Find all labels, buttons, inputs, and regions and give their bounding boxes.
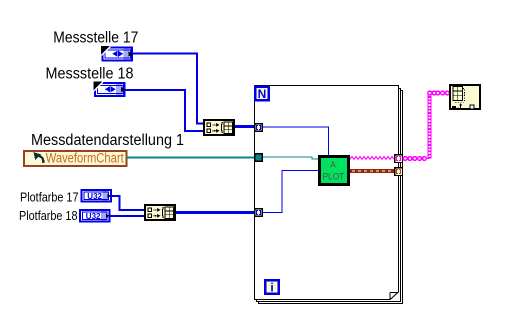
U32 constant terminal Plotfarbe 17	[81, 189, 113, 203]
control terminal Messstelle 17	[101, 46, 133, 62]
iteration terminal i	[265, 280, 279, 294]
Build Array node 1	[204, 120, 234, 135]
svg-text:WaveformChart: WaveformChart	[46, 151, 124, 166]
svg-text:U32: U32	[87, 192, 102, 201]
wire bottom tunnel to A PLOT left (inside loop)	[263, 171, 319, 213]
for loop dog-ear corner	[389, 292, 398, 300]
wire Plotfarbe 18 to Build Array 2 input 2	[111, 215, 145, 217]
svg-text:A: A	[330, 160, 336, 170]
for loop frame 2 (stacked page)	[257, 89, 401, 302]
wire cluster array to indicator (magenta bead chain)	[403, 91, 449, 160]
loop count terminal N	[255, 87, 269, 101]
loop tunnel array in (bottom left, auto-indexing)	[255, 209, 263, 217]
wire WaveformChart to loop tunnel (teal)	[126, 157, 255, 159]
wire A PLOT cluster output zigzag (magenta, inside loop)	[350, 157, 394, 160]
wire Build Array 2 output to loop tunnel (array)	[176, 211, 254, 214]
loop tunnel refnum (teal, solid)	[255, 154, 263, 162]
for loop frame 3 (stacked page)	[259, 91, 403, 304]
loop tunnel cluster out (magenta)	[395, 155, 403, 163]
svg-text:i: i	[270, 281, 273, 295]
svg-text:Messdatendarstellung 1: Messdatendarstellung 1	[31, 132, 184, 149]
loop tunnel waveform out (orange)	[395, 168, 403, 176]
WaveformChart refnum terminal	[24, 151, 127, 166]
control terminal Messstelle 18	[94, 82, 126, 98]
U32 constant terminal Plotfarbe 18	[79, 209, 111, 223]
svg-text:N: N	[258, 87, 267, 101]
wire tunnel to A PLOT top (inside loop)	[263, 127, 329, 155]
wire Plotfarbe 17 to Build Array 2 input 1	[112, 196, 145, 210]
svg-text:Messstelle 17: Messstelle 17	[53, 30, 138, 47]
svg-text:Messstelle 18: Messstelle 18	[46, 66, 134, 83]
wire teal tunnel to A PLOT left (inside loop)	[263, 157, 319, 159]
svg-text:Plotfarbe 18: Plotfarbe 18	[19, 208, 78, 223]
wire Build Array 1 output to loop tunnel (array)	[235, 125, 254, 128]
loop tunnel array in (top left, auto-indexing)	[255, 124, 263, 132]
cluster array indicator icon	[450, 85, 480, 109]
svg-text:Plotfarbe 17: Plotfarbe 17	[20, 190, 79, 205]
svg-text:U32: U32	[86, 212, 101, 221]
svg-text:PLOT: PLOT	[323, 172, 345, 182]
wire Messstelle 17 to Build Array 1 input 1	[133, 54, 203, 124]
Build Array node 2	[145, 205, 175, 220]
wire A PLOT waveform output (maroon dashed, inside loop)	[350, 169, 394, 173]
for loop main frame	[255, 86, 399, 300]
wire Messstelle 18 to Build Array 1 input 2	[126, 90, 204, 131]
subVI A PLOT	[319, 156, 348, 184]
